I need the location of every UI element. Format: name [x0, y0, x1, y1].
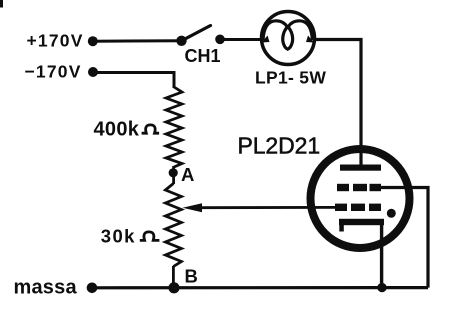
svg-text:B: B: [185, 266, 198, 287]
lamp LP1 envelope: [262, 12, 315, 65]
resistor 400k zigzag: [166, 87, 182, 167]
tube gas dot: [387, 209, 396, 218]
wire pot to node B: [172, 266, 175, 288]
potentiometer wiper arrow line: [198, 206, 336, 209]
svg-text:LP1- 5W: LP1- 5W: [255, 68, 326, 88]
wire lamp to anode corner: [313, 40, 361, 167]
tube anode plate: [340, 165, 381, 171]
svg-text:CH1: CH1: [185, 46, 221, 66]
potentiometer wiper arrowhead: [183, 203, 203, 212]
tube grid 1 dashes: [337, 184, 349, 191]
wire +170V to switch: [93, 39, 182, 42]
wire switch to lamp: [220, 38, 263, 41]
lamp filament right end: [306, 36, 314, 43]
switch CH1 left contact: [176, 36, 186, 46]
switch CH1 blade: [182, 26, 211, 41]
wire ground bus: [92, 286, 428, 289]
scan artifact top-left corner: [0, 0, 3, 8]
tube PL2D21 envelope: [311, 149, 410, 248]
wire -170V to resistor: [93, 73, 174, 89]
ohm symbol 30k: [140, 232, 160, 241]
junction cathode-ground: [377, 283, 386, 292]
potentiometer 30k zigzag: [165, 184, 181, 267]
svg-text:PL2D21: PL2D21: [238, 133, 321, 159]
svg-text:−170V: −170V: [25, 62, 82, 82]
svg-text:30k: 30k: [101, 225, 136, 246]
tube grid 2 dashes: [335, 204, 347, 211]
svg-text:A: A: [181, 164, 194, 185]
terminal node -170V: [88, 67, 98, 77]
wire grid 1 to right bus: [380, 188, 428, 288]
node A: [169, 168, 178, 177]
svg-text:massa: massa: [14, 276, 78, 298]
ohm symbol 400k: [142, 125, 160, 133]
tube cathode hook: [339, 222, 344, 232]
lamp LP1 filament: [263, 21, 312, 49]
lamp filament left end: [262, 36, 270, 43]
terminal node +170V: [88, 36, 98, 46]
node B: [168, 282, 179, 293]
wire cathode to ground bus: [380, 224, 383, 288]
tube cathode bar: [339, 219, 384, 225]
switch CH1 right contact: [215, 35, 225, 45]
terminal node massa: [87, 283, 98, 294]
wire resistor to node A: [172, 166, 175, 184]
svg-text:400k: 400k: [94, 118, 140, 140]
svg-text:+170V: +170V: [27, 31, 84, 51]
